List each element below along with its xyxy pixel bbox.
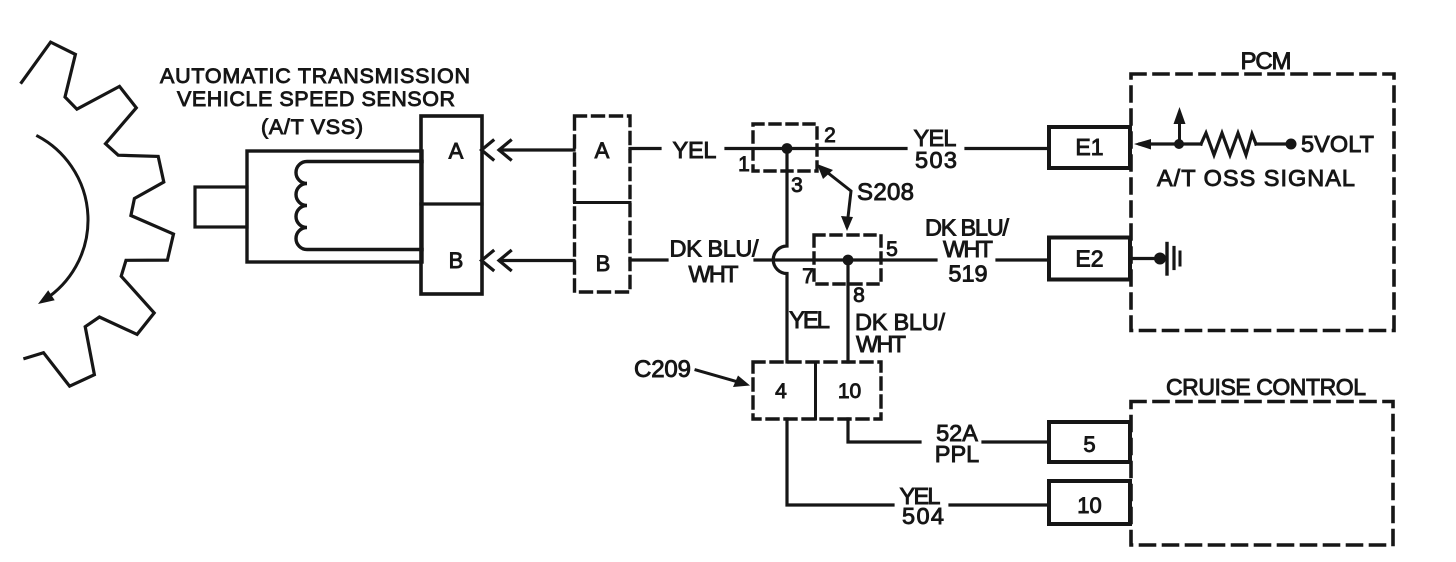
VSS sensor body	[195, 187, 247, 227]
svg-text:PCM: PCM	[1241, 48, 1292, 75]
terminal E1	[1049, 127, 1130, 168]
svg-text:10: 10	[838, 380, 861, 403]
resistor R	[1179, 142, 1201, 145]
svg-text:1: 1	[738, 153, 750, 176]
svg-text:A: A	[449, 139, 464, 164]
junction dot splice 1	[782, 143, 793, 154]
svg-text:8: 8	[853, 284, 865, 307]
junction dot splice 2	[843, 255, 854, 266]
svg-text:5VOLT: 5VOLT	[1301, 131, 1374, 157]
wire YEL from inline connector A	[630, 147, 660, 150]
gear wheel	[22, 42, 174, 386]
svg-text:2: 2	[824, 124, 836, 147]
svg-text:E1: E1	[1075, 134, 1103, 160]
svg-text:AUTOMATIC TRANSMISSION: AUTOMATIC TRANSMISSION	[160, 64, 470, 88]
svg-text:WHT: WHT	[943, 236, 993, 262]
wire YEL 504 from C209-4 to cruise 10	[787, 419, 893, 505]
splice S208 box lower	[814, 235, 881, 284]
svg-text:DK BLU/: DK BLU/	[670, 236, 759, 262]
splice S208 box upper	[753, 124, 817, 171]
node 5VOLT	[1286, 139, 1297, 150]
terminal 10	[1049, 481, 1130, 524]
connector mating arrows pin B	[482, 251, 494, 270]
svg-text:10: 10	[1077, 493, 1101, 518]
svg-text:519: 519	[948, 261, 987, 287]
wire DK BLU/WHT from inline connector B	[630, 258, 667, 261]
connector mating arrows pin A	[482, 141, 494, 160]
inline connector (dashed) pins A / B	[575, 116, 631, 292]
svg-text:WHT: WHT	[689, 261, 739, 287]
svg-text:B: B	[596, 251, 611, 276]
wire to E1	[966, 147, 1049, 150]
svg-text:CRUISE CONTROL: CRUISE CONTROL	[1166, 374, 1366, 400]
svg-text:PPL: PPL	[935, 441, 979, 467]
svg-text:504: 504	[902, 503, 944, 529]
svg-text:C209: C209	[634, 356, 691, 383]
terminal E2	[1049, 238, 1130, 280]
connector C209 pins 4 / 10 (dashed)	[753, 362, 881, 419]
terminal 5	[1049, 422, 1130, 462]
svg-text:B: B	[449, 248, 464, 273]
svg-text:3: 3	[791, 174, 803, 197]
svg-text:4: 4	[775, 380, 787, 403]
svg-text:VEHICLE SPEED SENSOR: VEHICLE SPEED SENSOR	[177, 87, 455, 111]
PCM internal: arrow into E1	[1140, 142, 1179, 145]
svg-text:A/T OSS SIGNAL: A/T OSS SIGNAL	[1157, 165, 1355, 191]
svg-text:YEL: YEL	[789, 307, 830, 334]
sensor coil winding	[296, 161, 422, 249]
sensor connector box pins A and B	[421, 116, 482, 294]
svg-text:503: 503	[915, 147, 957, 173]
CRUISE CONTROL box (dashed)	[1131, 402, 1393, 546]
svg-text:S208: S208	[857, 179, 914, 206]
svg-text:7: 7	[802, 265, 814, 288]
rotation arrow arc	[38, 136, 88, 300]
svg-text:E2: E2	[1075, 246, 1103, 272]
svg-text:YEL: YEL	[673, 137, 717, 163]
vertical YEL wire from splice 1 with hop over DK BLU/WHT	[773, 149, 787, 363]
junction dot	[1174, 139, 1184, 149]
svg-text:5: 5	[886, 238, 898, 261]
ground symbol	[1165, 244, 1168, 275]
wire pin B to inline connector	[500, 259, 574, 262]
vertical DK BLU/WHT wire from splice 2	[846, 260, 849, 362]
wire pin A to inline connector	[500, 148, 574, 151]
svg-text:WHT: WHT	[856, 331, 906, 357]
up arrow	[1178, 120, 1181, 144]
svg-text:(A/T VSS): (A/T VSS)	[261, 115, 363, 139]
label: AUTOMATIC TRANSMISSION VEHICLE SPEED SENSOR (A/T VSS)	[160, 64, 470, 139]
wire 52A PPL from C209-10 to cruise 5	[848, 419, 920, 442]
svg-text:5: 5	[1083, 432, 1095, 457]
svg-text:A: A	[595, 138, 610, 163]
wire to E2	[997, 258, 1049, 261]
PCM internal: E2 ground	[1131, 257, 1155, 260]
PCM box (dashed)	[1131, 74, 1394, 331]
